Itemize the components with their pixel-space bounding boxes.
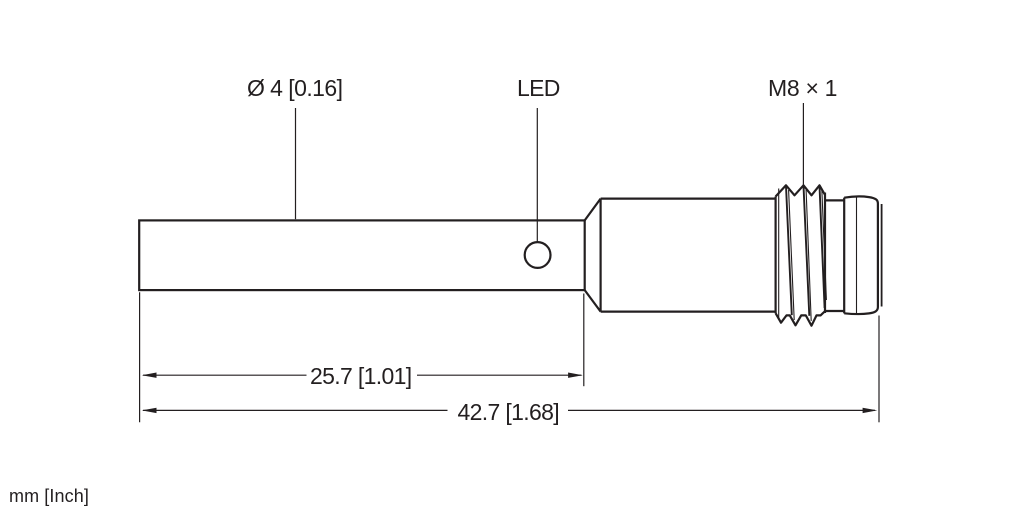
units note mm [Inch] [9,486,89,507]
thread left thin runout line [778,189,780,320]
dimension line 42.7 [143,409,875,411]
leader line for diameter label [295,108,297,219]
arrowhead 42.7 right [863,408,878,413]
connector cap outline [844,197,878,315]
thread silhouette bottom zigzag [776,311,825,326]
thread left boundary vertical [774,197,776,314]
cap end face thin vertical [881,204,883,307]
thread silhouette top zigzag [776,185,825,196]
arrowhead 25.7 right [568,373,583,378]
thread flank thick lines [786,186,825,316]
taper and body [585,199,776,312]
label diameter Ø 4 [0.16] [247,75,343,102]
extension line left [139,292,141,422]
cap inner thin vertical [856,197,858,314]
LED circle [525,242,551,268]
thread right boundary vertical [824,193,826,314]
dimension text 25.7 [1.01] [310,363,412,390]
label M8 x 1 [768,75,837,102]
dimension text 42.7 [1.68] [458,399,560,426]
extension line right [878,316,880,423]
thread flank thin lines [789,189,827,321]
leader line for LED [536,108,538,242]
leader line for M8 thread [802,103,804,185]
label LED [517,75,560,102]
arrowhead 25.7 left [142,373,157,378]
arrowhead 42.7 left [142,408,157,413]
collar after threads [825,198,844,314]
dimension line 25.7 [143,374,582,376]
extension line middle [583,294,585,387]
barrel (sensor tube Ø4) [139,220,585,290]
